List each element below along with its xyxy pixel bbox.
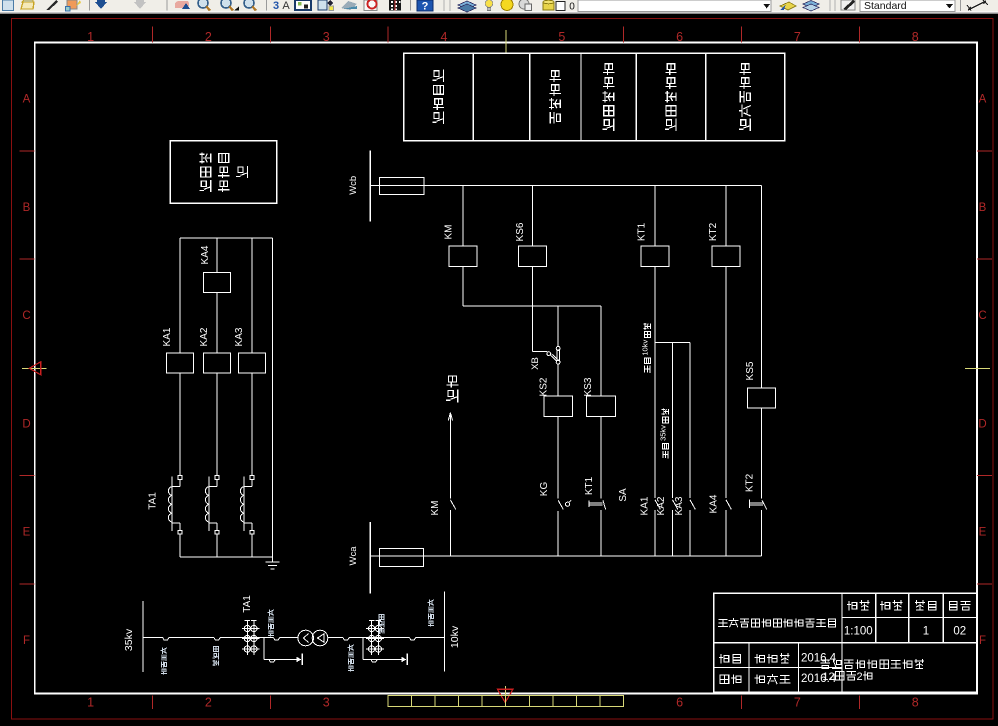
svg-text:C: C bbox=[978, 310, 986, 322]
current transformer TA2 (single-line) bbox=[371, 620, 373, 655]
arrester branch left bbox=[263, 638, 265, 660]
transformer symbol bbox=[298, 630, 314, 646]
left relay frame bbox=[180, 237, 273, 239]
relay KS2 coil bbox=[557, 306, 559, 346]
label 来自35kv母线 bbox=[663, 444, 669, 458]
svg-text:E: E bbox=[979, 527, 987, 539]
svg-text:D: D bbox=[978, 418, 986, 430]
svg-text:SA: SA bbox=[618, 488, 629, 502]
current transformer TA1 (a-phase) bbox=[178, 476, 182, 480]
trip signal arrow 跳闸 bbox=[447, 376, 458, 402]
main line bbox=[143, 637, 163, 639]
relay KA1 bbox=[167, 353, 194, 373]
svg-text:B: B bbox=[979, 202, 987, 214]
wire to KA2/KA3 bbox=[655, 342, 690, 344]
svg-text:D: D bbox=[22, 418, 30, 430]
disconnector bbox=[163, 638, 169, 641]
title text bbox=[718, 618, 835, 627]
svg-text:KA3: KA3 bbox=[234, 327, 245, 346]
label 过电流保护 bbox=[603, 64, 614, 131]
svg-text:A: A bbox=[23, 94, 31, 106]
contact KA4 bbox=[726, 500, 731, 510]
svg-text:KM: KM bbox=[430, 501, 441, 516]
center markers bbox=[505, 30, 507, 54]
svg-text:KA4: KA4 bbox=[709, 494, 720, 513]
scale ruler bbox=[388, 696, 624, 707]
svg-text:Wcb: Wcb bbox=[348, 176, 359, 195]
bus Wca bbox=[369, 522, 371, 594]
svg-text:0: 0 bbox=[569, 2, 575, 13]
svg-text:E: E bbox=[23, 527, 31, 539]
svg-text:1: 1 bbox=[87, 696, 94, 710]
svg-text:6: 6 bbox=[676, 696, 683, 710]
svg-text:KT1: KT1 bbox=[584, 476, 595, 495]
svg-text:A: A bbox=[282, 0, 290, 12]
connecting link XB bbox=[533, 351, 548, 353]
relay KT2 coil bbox=[725, 185, 727, 246]
svg-text:2016.4: 2016.4 bbox=[801, 653, 837, 665]
contact KM bbox=[450, 500, 455, 510]
toolbar background bbox=[0, 0, 998, 12]
relay KA4 bbox=[204, 272, 231, 292]
svg-text:1: 1 bbox=[87, 30, 94, 44]
wire jog bbox=[463, 305, 601, 307]
svg-text:KS3: KS3 bbox=[583, 377, 594, 396]
svg-text:2: 2 bbox=[205, 30, 212, 44]
svg-text:F: F bbox=[23, 635, 30, 647]
svg-text:12: 12 bbox=[822, 671, 834, 683]
contact KT2 (delayed) bbox=[749, 499, 751, 508]
label 过电流保护 bbox=[665, 64, 676, 131]
10kv busbar bbox=[444, 591, 446, 671]
svg-text:KA2: KA2 bbox=[199, 327, 210, 346]
svg-text:7: 7 bbox=[794, 696, 801, 710]
svg-text:1:100: 1:100 bbox=[844, 626, 873, 638]
disconnector bbox=[410, 638, 416, 641]
label 来自10kv母线 bbox=[644, 358, 650, 372]
svg-text:KA4: KA4 bbox=[200, 245, 211, 264]
tiny equipment labels bbox=[161, 648, 166, 674]
contact KA2 bbox=[673, 500, 678, 510]
svg-text:A: A bbox=[979, 94, 987, 106]
svg-text:KT1: KT1 bbox=[637, 222, 648, 241]
label 过负荷保护 bbox=[740, 64, 751, 131]
protection function table bbox=[404, 53, 785, 141]
svg-text:35kv: 35kv bbox=[659, 425, 668, 441]
label 瓦斯保护 bbox=[550, 71, 561, 123]
relay KA2 bbox=[204, 353, 231, 373]
svg-text:KA1: KA1 bbox=[162, 327, 173, 346]
svg-text:KS2: KS2 bbox=[538, 377, 549, 396]
contact KA1 bbox=[655, 500, 660, 510]
svg-text:KG: KG bbox=[539, 482, 550, 497]
svg-text:8: 8 bbox=[912, 696, 919, 710]
breaker bbox=[214, 638, 220, 641]
ground bbox=[272, 557, 274, 562]
svg-text:4: 4 bbox=[441, 30, 448, 44]
svg-text:Standard: Standard bbox=[864, 0, 907, 12]
svg-text:KA3: KA3 bbox=[674, 496, 685, 515]
svg-text:3: 3 bbox=[323, 30, 330, 44]
svg-text:Wca: Wca bbox=[348, 546, 359, 566]
contact KT1 (delayed) bbox=[588, 500, 590, 507]
svg-text:KA1: KA1 bbox=[640, 496, 651, 515]
toolbar icons bbox=[3, 0, 989, 13]
svg-text:F: F bbox=[979, 635, 986, 647]
contact KG bbox=[558, 500, 563, 509]
svg-text:XB: XB bbox=[530, 357, 541, 370]
svg-text:KS6: KS6 bbox=[515, 222, 526, 241]
svg-text:C: C bbox=[22, 310, 30, 322]
relay KM coil bbox=[462, 185, 464, 246]
title block bbox=[714, 593, 977, 692]
arrester branch right bbox=[362, 638, 364, 660]
current transformer TA1 (c-phase) bbox=[250, 476, 254, 480]
svg-text:KS5: KS5 bbox=[745, 361, 756, 380]
svg-text:10kv: 10kv bbox=[640, 340, 649, 356]
relay KS3 coil bbox=[600, 306, 602, 396]
fuse on Wcb bbox=[380, 177, 424, 194]
svg-text:2: 2 bbox=[856, 671, 862, 683]
svg-text:3: 3 bbox=[323, 696, 330, 710]
svg-text:35kv: 35kv bbox=[123, 628, 135, 651]
svg-text:KT2: KT2 bbox=[708, 222, 719, 241]
35kv busbar bbox=[142, 601, 144, 672]
svg-text:B: B bbox=[23, 202, 31, 214]
label 跳闸回路 bbox=[433, 70, 444, 123]
svg-text:?: ? bbox=[422, 1, 429, 13]
current transformer TA1 (b-phase) bbox=[215, 476, 219, 480]
svg-text:3: 3 bbox=[273, 0, 279, 12]
relay KS5 coil bbox=[761, 185, 763, 387]
svg-text:5: 5 bbox=[558, 30, 565, 44]
school text bbox=[821, 659, 923, 668]
disconnector bbox=[343, 638, 349, 641]
zone ticks bbox=[152, 27, 154, 43]
current transformer TA1 (single-line) bbox=[246, 620, 248, 655]
svg-text:8: 8 bbox=[912, 30, 919, 44]
svg-text:7: 7 bbox=[794, 30, 801, 44]
svg-text:6: 6 bbox=[676, 30, 683, 44]
fuse on Wca bbox=[380, 548, 424, 566]
svg-text:KA2: KA2 bbox=[656, 496, 667, 515]
relay KS6 coil bbox=[532, 185, 534, 246]
svg-text:10kv: 10kv bbox=[449, 625, 461, 648]
svg-text:02: 02 bbox=[953, 626, 966, 638]
contact KA3 bbox=[690, 500, 695, 510]
svg-text:KT2: KT2 bbox=[745, 473, 756, 492]
svg-text:TA1: TA1 bbox=[242, 595, 253, 613]
relay KA3 bbox=[239, 353, 266, 373]
box 过电流保护回路 bbox=[170, 141, 277, 204]
TA bottom bus bbox=[180, 556, 273, 558]
bus Wcb bbox=[369, 151, 371, 222]
relay KT1 coil bbox=[654, 185, 656, 246]
svg-text:2: 2 bbox=[205, 696, 212, 710]
svg-text:KM: KM bbox=[444, 225, 455, 240]
disconnector bbox=[274, 638, 280, 641]
svg-text:TA1: TA1 bbox=[148, 492, 159, 510]
svg-text:1: 1 bbox=[923, 626, 929, 638]
